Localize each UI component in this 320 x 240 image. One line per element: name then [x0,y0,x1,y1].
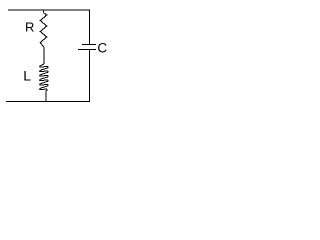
svg-text:C: C [97,41,107,56]
svg-text:L: L [23,68,31,84]
svg-text:R: R [25,19,34,34]
